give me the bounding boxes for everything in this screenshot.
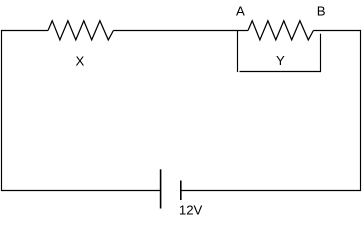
svg-text:B: B	[317, 4, 326, 19]
svg-text:Y: Y	[276, 53, 285, 68]
svg-text:12V: 12V	[179, 202, 203, 217]
svg-text:A: A	[236, 4, 245, 19]
svg-text:X: X	[76, 53, 85, 68]
